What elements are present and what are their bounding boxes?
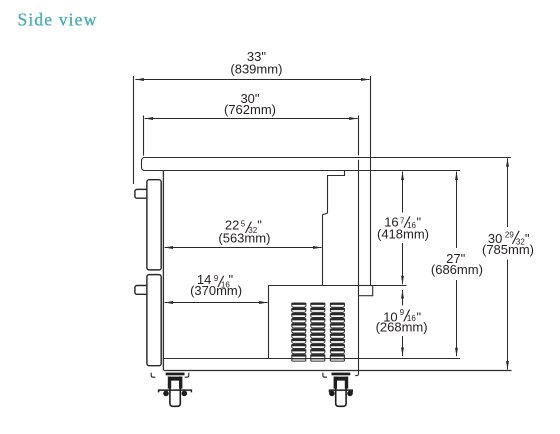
svg-text:7: 7 <box>400 216 405 225</box>
svg-text:(563mm): (563mm) <box>218 230 270 245</box>
svg-text:": " <box>417 309 422 324</box>
svg-text:": " <box>525 231 530 246</box>
svg-text:16: 16 <box>407 314 416 323</box>
svg-text:(839mm): (839mm) <box>230 61 282 76</box>
svg-text:9: 9 <box>400 308 405 317</box>
svg-text:10: 10 <box>383 309 397 324</box>
svg-text:30: 30 <box>488 231 502 246</box>
svg-text:16: 16 <box>407 221 416 230</box>
svg-text:14: 14 <box>197 272 211 287</box>
svg-text:29: 29 <box>505 231 514 240</box>
svg-text:(762mm): (762mm) <box>224 102 276 117</box>
svg-text:": " <box>417 215 422 230</box>
svg-text:9: 9 <box>214 274 219 283</box>
svg-text:22: 22 <box>225 217 239 232</box>
svg-text:(686mm): (686mm) <box>431 262 483 277</box>
svg-text:": " <box>229 272 234 287</box>
svg-text:Side view: Side view <box>18 10 98 30</box>
svg-text:": " <box>257 217 262 232</box>
svg-text:16: 16 <box>384 215 398 230</box>
svg-text:5: 5 <box>241 219 246 228</box>
